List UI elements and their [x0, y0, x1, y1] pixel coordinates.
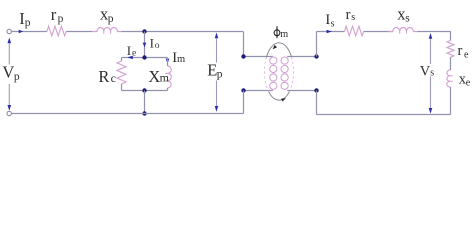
wire xs to load corner: [418, 31, 451, 33]
svg-text:X: X: [148, 67, 160, 86]
svg-text:V: V: [2, 63, 14, 82]
wire bottom-right bus: [317, 114, 451, 116]
wire shunt drop: node A down to excitation rail: [144, 32, 146, 58]
wire bottom-left bus: [12, 113, 244, 115]
wire rs to xs: [364, 31, 393, 33]
svg-text:p: p: [217, 69, 223, 81]
junction node A: [142, 29, 146, 33]
svg-text:e: e: [132, 49, 136, 59]
wire primary top corner down: [243, 32, 245, 57]
svg-text:s: s: [351, 12, 355, 23]
current arrow Io: [143, 43, 147, 48]
label Rc: [98, 67, 116, 86]
label Vp: [2, 63, 20, 83]
wire load corner down to re: [450, 32, 452, 41]
wire Rc top stub: [121, 58, 123, 62]
wire Xm bottom stub: [167, 88, 169, 91]
wire primary bottom corner down: [243, 91, 245, 114]
current arrow Is: [327, 30, 333, 34]
wire Xm top stub: [167, 58, 169, 67]
wire excitation bottom rail: [122, 90, 168, 92]
label Ie: [127, 43, 136, 59]
svg-text:p: p: [108, 13, 114, 25]
voltage arrow Vs up head: [429, 33, 433, 39]
flux arrow top head: [273, 45, 277, 49]
flux arrow bottom head: [281, 98, 286, 101]
resistor rs: [345, 26, 364, 36]
voltage arrow Ep down head: [215, 106, 219, 112]
voltage arrow Ep shaft upper: [216, 38, 218, 63]
label Vs: [420, 63, 434, 79]
wire xe down to bottom corner: [450, 87, 452, 115]
resistor re: [447, 41, 454, 58]
label rp: [51, 5, 64, 25]
svg-text:p: p: [25, 17, 31, 29]
wire xp to node A: [122, 31, 145, 33]
svg-text:p: p: [14, 71, 20, 83]
svg-text:m: m: [177, 54, 185, 65]
voltage arrow Vp down head: [8, 105, 12, 111]
label re: [458, 43, 470, 61]
wire re to xe: [450, 57, 452, 70]
svg-text:s: s: [405, 13, 410, 25]
wire primary top stub to winding: [244, 56, 273, 58]
inductor xs: [389, 28, 418, 34]
label Xs: [397, 4, 410, 24]
wire rp to xp: [66, 31, 92, 33]
wire secondary bottom stub: [287, 90, 316, 92]
voltage arrow Ep up head: [215, 33, 219, 39]
voltage arrow Ep shaft lower: [216, 81, 218, 107]
svg-text:m: m: [160, 71, 170, 85]
svg-text:I: I: [127, 43, 131, 58]
winding primary: [270, 57, 277, 89]
label Is: [325, 12, 334, 29]
svg-text:R: R: [98, 67, 109, 86]
voltage arrow Vp shaft upper: [8, 43, 10, 65]
voltage arrow Vs down head: [429, 108, 433, 114]
svg-text:r: r: [458, 43, 463, 59]
wire secondary top stub: [287, 56, 316, 58]
svg-text:c: c: [111, 71, 116, 85]
svg-text:p: p: [58, 13, 64, 25]
label Ip: [19, 9, 31, 29]
inductor Xm: [165, 66, 171, 88]
junction excitation bottom center: [142, 88, 146, 92]
wire secondary top corner up: [316, 32, 318, 57]
voltage arrow Vp up head: [8, 38, 12, 44]
wire excitation rail down to bottom bus: [144, 91, 146, 114]
junction primary bottom stub: [241, 88, 245, 92]
svg-text:m: m: [280, 29, 288, 40]
svg-text:V: V: [420, 63, 431, 79]
voltage arrow Vs shaft upper: [430, 39, 432, 65]
wire excitation top rail: [122, 57, 168, 59]
svg-text:r: r: [51, 5, 57, 24]
terminal primary top: [7, 29, 11, 33]
winding secondary: [281, 57, 288, 89]
flux path ellipse dashed left side: [264, 57, 268, 91]
wire primary bottom stub: [244, 90, 273, 92]
resistor Rc: [117, 61, 126, 84]
label Xm: [148, 67, 169, 86]
current arrow Ie: [127, 56, 133, 60]
current arrow Ip: [19, 30, 24, 34]
junction primary top stub: [241, 54, 245, 58]
label Im: [172, 50, 185, 66]
label rs: [346, 7, 356, 23]
flux arc top: [266, 43, 291, 57]
label xe: [459, 72, 471, 89]
svg-text:I: I: [150, 35, 154, 50]
flux path ellipse dashed right side: [289, 57, 293, 91]
junction excitation top center: [142, 55, 146, 59]
wire top-right bus to rs: [317, 31, 345, 33]
inductor xe: [447, 70, 453, 87]
terminal primary bottom: [7, 111, 11, 115]
inductor xp: [92, 27, 122, 33]
wire secondary bottom corner down: [316, 91, 318, 115]
label Io: [150, 35, 160, 51]
svg-text:e: e: [466, 78, 471, 89]
junction node bottom bus: [142, 111, 146, 115]
junction secondary top stub: [314, 54, 318, 58]
label phi-m: [274, 26, 288, 40]
svg-text:E: E: [207, 61, 217, 80]
svg-text:s: s: [331, 18, 335, 29]
wire node A to corner, top bus to primary winding corner: [144, 31, 243, 33]
junction secondary bottom stub: [314, 88, 318, 92]
svg-text:o: o: [155, 41, 160, 51]
voltage arrow Vp shaft lower: [8, 84, 10, 105]
svg-text:r: r: [346, 7, 351, 23]
current arrow Im: [166, 59, 170, 64]
svg-text:e: e: [464, 49, 469, 60]
voltage arrow Vs shaft lower: [430, 77, 432, 109]
wire Rc bottom stub: [121, 84, 123, 91]
label Ep: [207, 61, 223, 81]
label xp: [100, 5, 114, 25]
resistor rp: [47, 26, 66, 36]
wire top-left bus: terminal to rp: [11, 31, 47, 33]
flux arc bottom: [269, 92, 290, 100]
